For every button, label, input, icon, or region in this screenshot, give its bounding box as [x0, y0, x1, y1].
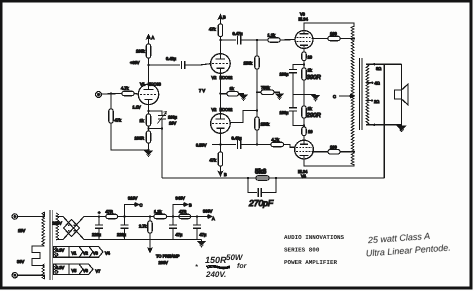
wire node to 1k to ground [220, 94, 243, 95]
svg-text:A: A [152, 35, 155, 40]
svg-text:V5: V5 [72, 268, 78, 273]
wire input to grid resistor [101, 93, 122, 96]
svg-text:100: 100 [330, 31, 337, 36]
resistor 47R filter 2 [179, 209, 191, 219]
heater banner 2 [54, 264, 102, 275]
wire cap to V2a grid [185, 64, 211, 65]
node V2a plate junction [219, 39, 221, 41]
wire 150k to mid node [256, 69, 258, 111]
wire V3 plate to OPT top [304, 23, 354, 31]
resistor 10 cathode V3 [302, 52, 313, 61]
node divider mid [256, 91, 258, 93]
svg-text:ECC82: ECC82 [220, 107, 234, 112]
svg-text:1.2k: 1.2k [154, 209, 162, 214]
svg-text:2.7k: 2.7k [139, 224, 147, 229]
svg-text:1k: 1k [140, 118, 144, 123]
capacitor 100u cathode bypass V1 [149, 111, 178, 129]
power transformer T2 terminal upper [12, 214, 17, 219]
svg-text:SERIES 800: SERIES 800 [284, 247, 320, 254]
svg-text:1.1V: 1.1V [133, 105, 142, 110]
svg-text:6.3V: 6.3V [56, 248, 65, 253]
svg-text:100μ: 100μ [280, 72, 290, 77]
svg-text:5k6: 5k6 [255, 169, 267, 176]
wire bus to 290R to node [303, 94, 305, 127]
resistor 4.7k grid stopper V4 [271, 137, 284, 147]
svg-text:10: 10 [308, 129, 313, 134]
svg-text:0.42μ: 0.42μ [166, 56, 177, 61]
svg-text:ECC82: ECC82 [220, 75, 234, 80]
svg-text:POWER AMPLIFIER: POWER AMPLIFIER [284, 259, 337, 266]
svg-text:47μ: 47μ [200, 232, 207, 237]
node C supply junction [123, 215, 125, 217]
node A supply junction [196, 215, 198, 217]
ground output bus [312, 96, 319, 101]
wire 1.2k to V3 grid [280, 39, 296, 42]
wire 0V rail [88, 239, 202, 241]
transformer T1 secondary [366, 64, 369, 125]
svg-text:EL34: EL34 [299, 17, 309, 22]
primary tap step [32, 246, 45, 266]
svg-text:47μ: 47μ [176, 232, 183, 237]
resistor 1k cathode V2a [227, 86, 239, 96]
svg-text:8.59V: 8.59V [196, 143, 207, 148]
wire feedback riser [383, 64, 385, 178]
wire secondary 8 ohm tap [366, 63, 402, 65]
handwritten note dropper resistor [195, 253, 248, 279]
wire cap to divider node [241, 39, 257, 41]
node C arrow to OPT centre tap [333, 94, 354, 99]
resistor 150k divider upper [244, 56, 260, 69]
resistor 4.7k grid stopper V1 [121, 86, 134, 96]
wire B+ rail [88, 216, 106, 218]
wire secondary 4 ohm tap [366, 82, 372, 84]
wire V1 plate up [148, 65, 150, 84]
svg-text:V4: V4 [105, 251, 111, 256]
svg-text:150R: 150R [205, 255, 227, 265]
node C arrow supply [125, 196, 143, 217]
svg-text:4.7k: 4.7k [272, 137, 280, 142]
wire node to 4.7k to V4 grid [257, 145, 295, 148]
node grid tap [256, 109, 258, 111]
svg-text:47R: 47R [106, 209, 113, 214]
svg-text:B: B [224, 172, 227, 177]
svg-text:TO PREAMP: TO PREAMP [156, 254, 180, 259]
svg-text:100μ: 100μ [280, 110, 290, 115]
svg-text:10V: 10V [169, 121, 176, 126]
svg-text:310V: 310V [128, 196, 138, 201]
resistor 2.7k preamp feed [139, 221, 152, 233]
wire 10 to V4 cathode [303, 136, 305, 141]
wire feedback line [162, 177, 384, 179]
capacitor 220u reservoir [92, 217, 103, 240]
node V2b cathode [219, 143, 221, 145]
wire 100k to node A [148, 38, 150, 65]
svg-text:1k: 1k [230, 86, 234, 91]
wire screen resistor to OPT tap [340, 38, 354, 40]
svg-text:for: for [237, 262, 248, 270]
svg-text:47k: 47k [210, 158, 216, 163]
svg-text:290V: 290V [53, 221, 63, 226]
ground bus output stage [293, 93, 316, 95]
transformer T2 heater winding 2 [54, 264, 56, 275]
node V1 cathode [147, 110, 149, 112]
svg-text:4Ω: 4Ω [375, 81, 380, 86]
title block [284, 234, 345, 266]
wire 47k to bottom rail [111, 123, 149, 150]
svg-text:1k: 1k [308, 106, 312, 111]
wire bus to cap V4 [293, 94, 304, 125]
svg-text:V1: V1 [140, 82, 146, 87]
power transformer T2 terminal lower [12, 273, 17, 278]
svg-text:220μ: 220μ [92, 232, 102, 237]
svg-text:300V: 300V [203, 209, 213, 214]
capacitor 47u filter A [193, 217, 207, 240]
node feedback left [247, 177, 249, 179]
svg-text:C: C [333, 94, 336, 99]
capacitor 100u bypass V3 [280, 70, 298, 77]
svg-text:750k: 750k [261, 85, 270, 90]
transformer T2 core [50, 210, 52, 280]
resistor 750k bias [261, 85, 274, 95]
capacitor 0.47u coupling [233, 31, 244, 44]
wire tail to node B bottom [219, 145, 221, 173]
wire feedback riser to cathode divider [161, 129, 163, 179]
svg-text:2Ω: 2Ω [374, 99, 379, 104]
node A arrow [147, 35, 155, 40]
speaker LS1 [395, 64, 409, 125]
resistor 100 screen V4 [328, 144, 340, 154]
capacitor 0.43u coupling V2b [232, 135, 243, 149]
svg-text:4.7k: 4.7k [121, 86, 129, 91]
svg-text:150k: 150k [244, 61, 253, 66]
triode V2b ECC82 [211, 107, 234, 133]
node preamp feed [149, 215, 151, 217]
svg-text:240V.: 240V. [205, 270, 226, 279]
svg-text:10: 10 [308, 55, 313, 60]
node B arrow top [219, 15, 226, 20]
resistor 1.2k filter [154, 209, 167, 219]
capacitor 47u filter B [169, 217, 183, 240]
node cathode bypass junction [161, 127, 163, 129]
svg-text:1.2k: 1.2k [268, 33, 276, 38]
wire 47k to node B top [219, 18, 221, 40]
wire V2a cathode down to V2b plate [219, 73, 221, 114]
ground 1k [240, 95, 247, 100]
wire secondary common [366, 124, 402, 126]
transformer T1 output primary [351, 26, 354, 165]
svg-text:30V: 30V [17, 259, 24, 264]
wire V4 plate to OPT bottom [304, 159, 354, 166]
svg-text:V1: V1 [72, 251, 78, 256]
wire to preamp arrow [148, 217, 180, 266]
svg-text:270pF: 270pF [248, 198, 274, 208]
svg-text:+80V: +80V [130, 60, 140, 65]
pentode V3 EL34 [295, 12, 313, 49]
node divider top [256, 39, 258, 41]
svg-text:1k: 1k [308, 68, 312, 73]
svg-text:C: C [140, 203, 143, 208]
wire screen to tap [340, 151, 354, 153]
svg-text:8Ω: 8Ω [376, 66, 381, 71]
capacitor 0.42u coupling [166, 56, 185, 69]
heater banner 1 [54, 247, 111, 258]
svg-text:15V: 15V [18, 228, 25, 233]
node +80V junction [147, 64, 149, 66]
transformer T2 HT secondary [56, 213, 59, 240]
svg-text:A: A [212, 216, 215, 221]
wire 390R to ground bus [303, 80, 305, 94]
svg-text:100μ: 100μ [168, 115, 178, 120]
resistor 47R filter 1 [106, 209, 118, 219]
pentode V4 EL34 [295, 140, 314, 178]
triode V1 ECC83 [138, 82, 161, 105]
wire to node B supply [167, 216, 198, 218]
resistor 100 screen V3 [328, 31, 340, 41]
wire V2b cathode down [219, 133, 221, 144]
wire cathode to cap [220, 144, 236, 146]
wire plate node to coupling cap 2 [220, 39, 236, 41]
capacitor 220u filter 2 [117, 217, 129, 240]
wire input node down [110, 94, 112, 109]
resistor 47k input load [109, 109, 121, 123]
node V2a cathode junction [219, 93, 221, 95]
resistor 390R bias V3 [302, 68, 322, 82]
wire lower 150k [256, 111, 258, 145]
ground V1 cathode [145, 151, 152, 156]
svg-text:6.3V: 6.3V [56, 265, 65, 270]
svg-text:47k: 47k [115, 118, 121, 123]
ground speaker [401, 125, 403, 127]
wire node to 1.2k [257, 39, 268, 41]
wire mains top [18, 212, 45, 217]
svg-text:V6: V6 [83, 268, 89, 273]
resistor 1.2k grid stopper V3 [268, 33, 281, 43]
svg-text:0.43μ: 0.43μ [232, 135, 243, 140]
resistor 47k tail [210, 152, 223, 166]
transformer T2 primary [17, 212, 45, 279]
svg-text:340V: 340V [176, 196, 186, 201]
ground PSU [201, 240, 203, 242]
bridge rectifier D1-D4 [56, 217, 88, 240]
wire 4.7k to V1 grid [134, 93, 138, 96]
transformer T2 heater winding 1 [54, 247, 56, 258]
wire V2b grid to divider [230, 111, 257, 123]
wire V3 screen to UL tap [312, 38, 329, 40]
resistor 100R cathode V1 [135, 131, 151, 143]
svg-text:100R: 100R [135, 136, 145, 141]
resistor 5k6 feedback [255, 169, 269, 181]
svg-text:100k: 100k [136, 49, 145, 54]
node feedback right [275, 177, 277, 179]
resistor 47k plate load V2a [209, 24, 223, 37]
node B supply junction [172, 215, 174, 217]
node B arrow supply [173, 196, 192, 217]
svg-text:0.47μ: 0.47μ [233, 31, 244, 36]
svg-text:*: * [195, 264, 198, 271]
wire V2a plate up to node [219, 40, 221, 54]
svg-text:150k: 150k [261, 122, 270, 127]
svg-text:ECC83: ECC83 [148, 82, 162, 87]
svg-text:100: 100 [330, 144, 337, 149]
resistor 290R bias V4 [302, 106, 322, 119]
svg-text:390R: 390R [307, 74, 322, 81]
capacitor 100u bypass V4 [280, 108, 298, 115]
node input junction [110, 93, 112, 95]
wire plate node to coupling cap [149, 64, 181, 66]
wire V3 cathode to bias node [303, 48, 305, 68]
triode V2a ECC82 [211, 54, 234, 80]
svg-text:47k: 47k [209, 27, 215, 32]
svg-text:V7: V7 [96, 268, 102, 273]
wire mid node to 750k to ground [257, 92, 280, 94]
svg-text:47R: 47R [179, 209, 186, 214]
svg-text:B: B [223, 15, 226, 20]
svg-text:290R: 290R [306, 112, 322, 119]
svg-text:B: B [189, 203, 192, 208]
handwritten note class A [365, 230, 451, 259]
wire divider vertical [256, 40, 258, 56]
svg-text:V2: V2 [212, 107, 218, 112]
resistor 150k divider lower [255, 117, 269, 130]
svg-text:AUDIO INNOVATIONS: AUDIO INNOVATIONS [284, 234, 345, 241]
svg-text:V3: V3 [93, 251, 99, 256]
svg-text:290V: 290V [159, 260, 169, 265]
wire cathode node to cap [293, 65, 304, 95]
input jack J1 [96, 92, 102, 98]
wire mains bottom [18, 275, 45, 279]
transformer T1 core [360, 58, 363, 130]
capacitor 270pF feedback [248, 178, 276, 208]
node lower coupling [256, 143, 258, 145]
resistor 100k plate load V1 [136, 44, 151, 58]
ground 750k [276, 94, 283, 99]
svg-text:V2: V2 [212, 75, 218, 80]
wire cap to node [241, 144, 257, 146]
svg-text:V2: V2 [83, 251, 89, 256]
wire V4 screen to UL tap [312, 151, 328, 153]
svg-text:220μ: 220μ [117, 232, 127, 237]
node A arrow supply [197, 209, 215, 222]
wire secondary 2 ohm tap [366, 100, 372, 102]
resistor 1k cathode V1 [140, 114, 151, 126]
resistor 10 cathode V4 [302, 127, 313, 136]
svg-text:7 V: 7 V [199, 88, 205, 93]
node B arrow bottom [219, 172, 227, 177]
svg-text:50W: 50W [226, 253, 244, 262]
wire 47R to C node [118, 216, 154, 218]
